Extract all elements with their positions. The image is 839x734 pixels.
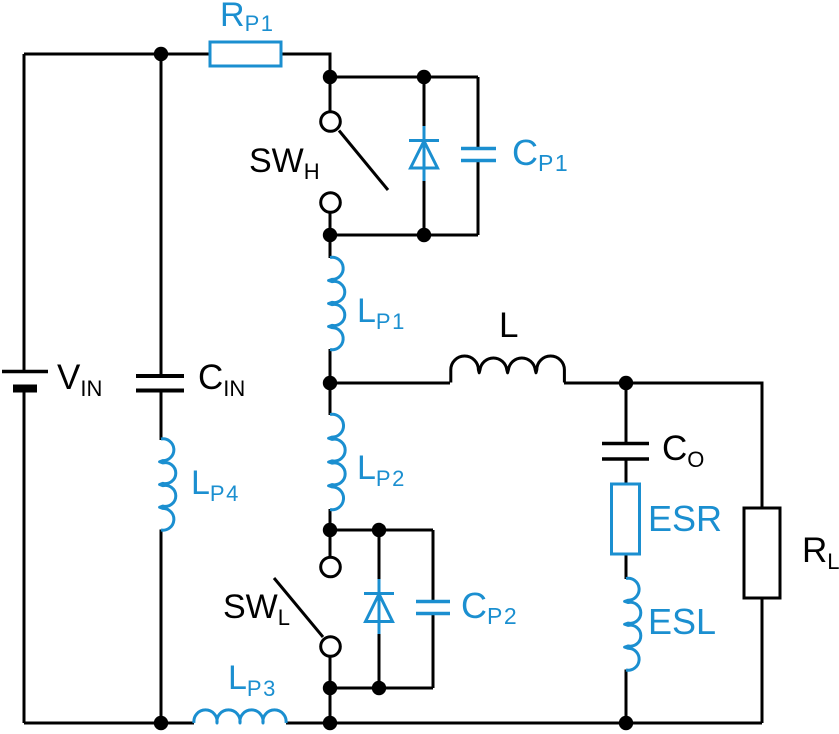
wire diode D2 stubs bbox=[378, 530, 381, 688]
inductor LP2 bbox=[329, 414, 346, 509]
svg-text:CIN: CIN bbox=[198, 358, 245, 401]
wire LP1 stubs bbox=[329, 235, 332, 383]
wire SWH top stub bbox=[329, 77, 332, 111]
diode D2 bbox=[364, 579, 394, 634]
node junction dot box2 bottom-right bbox=[372, 681, 386, 695]
node junction dot box2 top-left bbox=[323, 523, 337, 537]
node junction dot ground CIN bbox=[154, 716, 168, 730]
wire mid rail left bbox=[330, 382, 450, 385]
node junction dot mid rail CO bbox=[619, 376, 633, 390]
svg-text:LP3: LP3 bbox=[228, 659, 277, 701]
wire diode D1 top stub bbox=[423, 77, 426, 126]
svg-text:VIN: VIN bbox=[57, 358, 102, 401]
resistor RL bbox=[744, 508, 780, 598]
capacitor CP1 bbox=[461, 149, 496, 161]
wire box1 bottom rail bbox=[330, 234, 478, 237]
svg-text:LP4: LP4 bbox=[191, 464, 240, 506]
capacitor CP2 bbox=[416, 602, 450, 614]
inductor LP1 bbox=[329, 257, 345, 349]
switch SWL bbox=[274, 557, 340, 656]
node junction dot ground SWL bbox=[323, 716, 337, 730]
wire CP1 bottom stub bbox=[477, 162, 480, 235]
wire bottom rail left bbox=[24, 722, 194, 725]
svg-text:SWL: SWL bbox=[223, 588, 290, 630]
wire box2 top rail bbox=[330, 529, 433, 532]
inductor LP4 bbox=[160, 439, 176, 530]
svg-text:ESR: ESR bbox=[648, 498, 722, 539]
node junction dot mid rail left bbox=[323, 376, 337, 390]
diode D1 bbox=[409, 126, 439, 181]
wire bottom rail right bbox=[286, 722, 762, 725]
svg-text:LP1: LP1 bbox=[357, 292, 406, 334]
node junction dot box1 bottom-left bbox=[323, 228, 337, 242]
svg-text:SWH: SWH bbox=[249, 142, 320, 184]
wire left column bottom bbox=[23, 392, 26, 723]
switch SWH bbox=[321, 112, 388, 213]
inductor L bbox=[451, 356, 565, 383]
inductor LP3 bbox=[194, 710, 286, 723]
wire SWL bottom stub bbox=[329, 657, 332, 688]
svg-text:L: L bbox=[499, 306, 518, 345]
wire top from battery to RP1 bbox=[24, 53, 210, 56]
wire CP1 top stub bbox=[477, 77, 480, 147]
battery VIN bbox=[2, 372, 48, 393]
wire SWH bottom stub bbox=[329, 213, 332, 235]
capacitor CO bbox=[602, 444, 649, 460]
node junction dot box2 bottom-left bbox=[323, 681, 337, 695]
wire box2 bottom rail bbox=[330, 687, 433, 690]
svg-text:RP1: RP1 bbox=[220, 0, 274, 36]
resistor RP1 bbox=[210, 42, 281, 66]
wire LP2 stubs bbox=[329, 383, 332, 530]
wire CIN to LP4 bbox=[160, 392, 163, 440]
inductor ESL bbox=[625, 578, 641, 670]
capacitor CIN bbox=[136, 376, 184, 391]
wire RP1 to switch column bbox=[281, 54, 330, 77]
svg-text:CP1: CP1 bbox=[512, 132, 569, 176]
resistor ESR bbox=[612, 484, 640, 554]
node junction dot ground CO bbox=[619, 716, 633, 730]
svg-text:CO: CO bbox=[662, 429, 704, 472]
wire RL bottom bbox=[761, 598, 764, 723]
node junction dot box1 bottom-right bbox=[417, 228, 431, 242]
wire SWL to ground rail bbox=[329, 688, 332, 723]
wire CIN top bbox=[160, 54, 163, 374]
wire CO branch stubs bbox=[625, 383, 628, 723]
svg-text:CP2: CP2 bbox=[461, 585, 518, 629]
wire SWL top stub bbox=[329, 530, 332, 556]
node junction dot box1 top-right bbox=[417, 70, 431, 84]
svg-text:RL: RL bbox=[802, 531, 839, 574]
node junction dot top bbox=[154, 47, 168, 61]
wire diode D1 bottom stub bbox=[423, 181, 426, 235]
wire CP2 stubs bbox=[432, 530, 435, 688]
svg-text:ESL: ESL bbox=[648, 601, 716, 642]
node junction dot box1 top-left bbox=[323, 70, 337, 84]
wire box1 top rail bbox=[330, 76, 478, 79]
wire LP4 to ground rail bbox=[160, 530, 163, 724]
node junction dot box2 top-right bbox=[372, 523, 386, 537]
wire left column top bbox=[23, 54, 26, 371]
wire mid rail right to RL bbox=[564, 383, 762, 508]
svg-text:LP2: LP2 bbox=[357, 449, 406, 491]
